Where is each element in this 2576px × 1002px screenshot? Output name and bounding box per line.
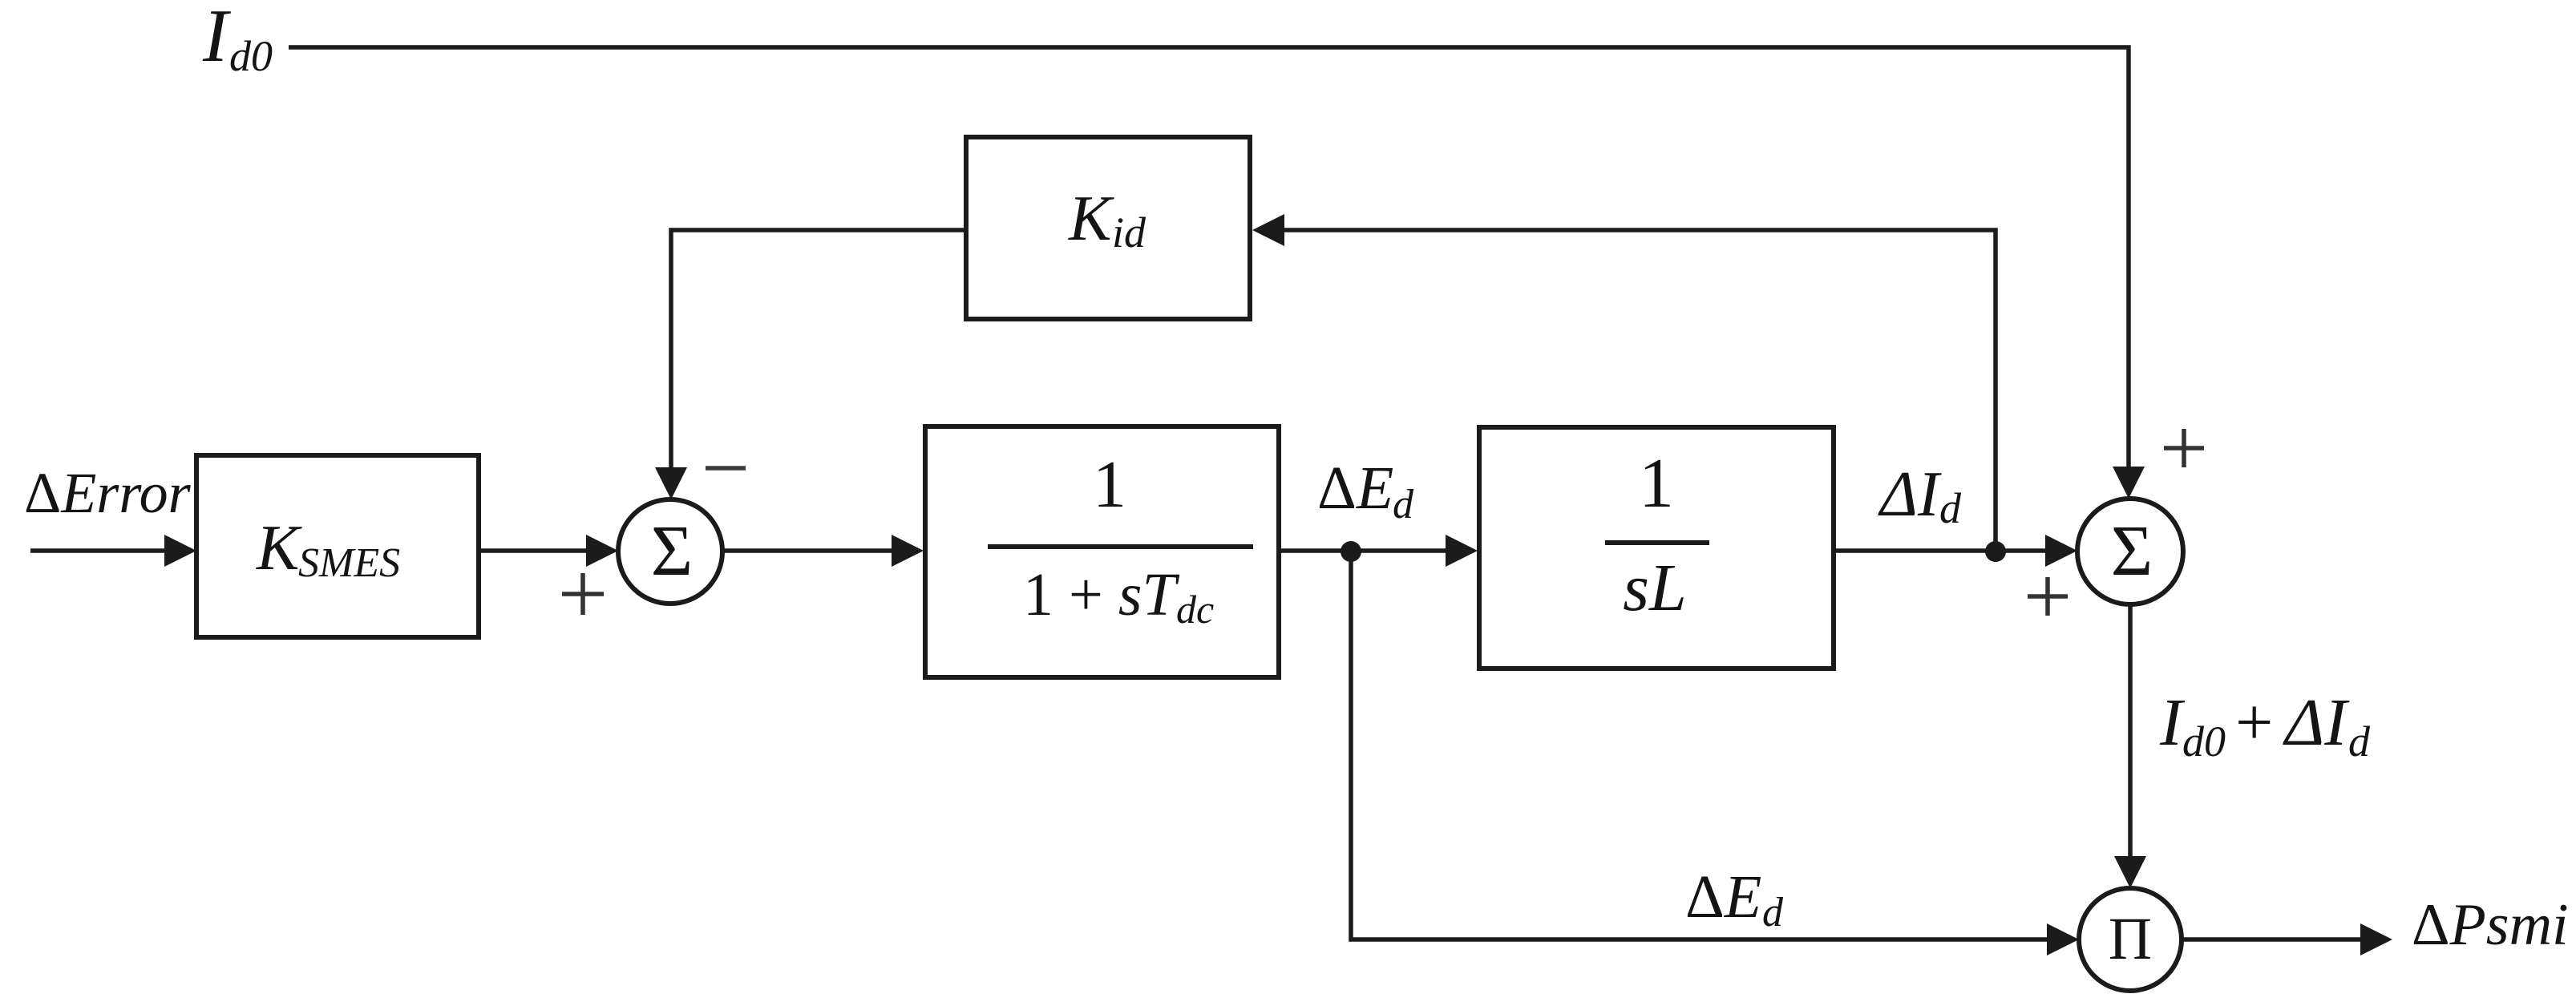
wire sum 1 to block 1 — [722, 535, 924, 567]
block 1/(1+sTdc) fraction bar — [988, 544, 1253, 549]
node plus sign at left input of sum 2 — [2028, 577, 2068, 616]
block 1/sL fraction bar — [1605, 540, 1709, 545]
node plus sign at left input of sum 1 — [562, 573, 604, 615]
wire feedback from dI_d junction up and into Kid right side — [1252, 214, 1996, 552]
wire block 1 to block 2 — [1279, 535, 1478, 567]
node Id0 label — [202, 0, 273, 80]
svg-text:ΔPsmi: ΔPsmi — [2412, 892, 2569, 958]
svg-text:Σ: Σ — [651, 511, 693, 591]
node dId label — [1878, 459, 1962, 532]
node sum 1 circle — [618, 499, 722, 604]
svg-text:d: d — [1939, 484, 1962, 532]
svg-text:ΔE: ΔE — [1317, 455, 1393, 522]
node sum 2 circle — [2077, 499, 2183, 604]
wire input arrow into KSMES — [30, 535, 196, 567]
node dEd label bottom — [1685, 863, 1784, 935]
svg-text:ΔE: ΔE — [1685, 863, 1761, 931]
svg-text:ΔError: ΔError — [24, 461, 192, 525]
block KSMES label — [256, 513, 400, 586]
svg-text:K: K — [256, 513, 302, 584]
svg-text:ΔI: ΔI — [2283, 685, 2350, 760]
svg-text:d: d — [1393, 482, 1414, 527]
wire block 2 to sum 2 — [1834, 535, 2077, 567]
wire Kid output left then down into sum 1 — [655, 230, 966, 499]
block Kid label — [1068, 184, 1146, 257]
block Kid — [966, 137, 1250, 319]
block 1/sL — [1479, 427, 1834, 669]
svg-text:K: K — [1068, 184, 1114, 254]
svg-text:d0: d0 — [229, 32, 273, 80]
svg-text:d0: d0 — [2182, 717, 2226, 766]
node junction dot at block 1 output — [1341, 541, 1361, 562]
block 1/(1+sTdc) denominator — [1023, 561, 1214, 632]
block KSMES — [196, 455, 479, 637]
wire dEd tap from block 1 output down and right into product — [1351, 552, 2079, 956]
node product circle — [2079, 888, 2182, 991]
svg-text:Π: Π — [2109, 906, 2152, 972]
node minus sign at top input of sum 1 — [706, 466, 746, 471]
wire product output to dPsmi — [2182, 923, 2392, 956]
svg-text:SMES: SMES — [298, 540, 400, 586]
svg-text:Σ: Σ — [2111, 511, 2153, 591]
node junction dot on dI_d line — [1985, 541, 2006, 562]
svg-text:I: I — [202, 0, 231, 78]
node dEd label at block 1 output — [1317, 455, 1414, 527]
node dError label — [24, 461, 192, 525]
svg-text:1: 1 — [1639, 445, 1674, 523]
svg-text:d: d — [1762, 890, 1784, 935]
svg-text:d: d — [2348, 717, 2371, 766]
wire KSMES to sum 1 — [479, 535, 618, 567]
svg-text:id: id — [1112, 208, 1146, 257]
svg-text:1 + sT: 1 + sT — [1023, 561, 1179, 628]
svg-text:1: 1 — [1093, 447, 1126, 522]
wire Id0 top line to right sum — [289, 47, 2145, 499]
svg-text:sL: sL — [1623, 551, 1686, 625]
node Id0 + dId label — [2159, 685, 2371, 766]
svg-text:+: + — [2235, 685, 2273, 760]
wire sum 2 down to product — [2114, 604, 2146, 888]
svg-text:dc: dc — [1176, 587, 1214, 632]
svg-text:ΔI: ΔI — [1878, 459, 1942, 530]
block 1/(1+sTdc) — [925, 426, 1279, 677]
node plus sign at top input of right sum — [2164, 429, 2204, 467]
